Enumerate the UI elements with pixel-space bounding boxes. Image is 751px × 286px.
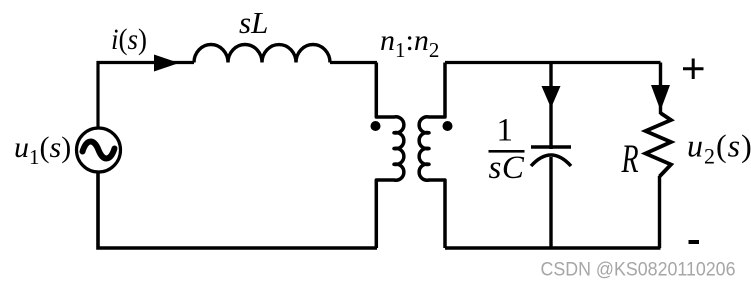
wire: source bottom lead and primary bottom rail <box>98 172 377 248</box>
capacitor C <box>531 147 571 166</box>
svg-text:sL: sL <box>239 5 268 40</box>
transformer T1 primary winding <box>376 63 404 249</box>
inductor sL <box>194 45 330 63</box>
voltage source u1(s) <box>77 128 121 172</box>
svg-text:u1(s): u1(s) <box>14 131 71 169</box>
svg-text:sC: sC <box>489 150 525 186</box>
wire: secondary bottom rail <box>445 246 661 250</box>
wire: source top lead and top-left corner to inductor <box>98 63 194 129</box>
transformer T1 secondary polarity dot <box>443 121 453 131</box>
wire: capacitor branch bottom <box>549 157 552 248</box>
current arrow into resistor <box>651 85 670 111</box>
svg-text:1: 1 <box>497 113 514 149</box>
wire: capacitor branch top <box>549 63 552 150</box>
wire: resistor branch top <box>659 63 662 115</box>
svg-text:i(s): i(s) <box>111 24 147 57</box>
resistor R <box>646 113 672 177</box>
svg-text:R: R <box>621 137 639 181</box>
current arrow i(s) <box>154 55 179 72</box>
label 1/sC <box>489 113 525 186</box>
wire: resistor branch bottom <box>658 176 661 248</box>
minus sign <box>689 240 700 244</box>
svg-text:n1:n2: n1:n2 <box>380 24 439 62</box>
transformer T1 primary polarity dot <box>371 121 381 131</box>
plus sign <box>683 59 704 80</box>
current arrow into capacitor <box>542 86 561 108</box>
wire: inductor to transformer primary <box>330 61 377 64</box>
svg-text:CSDN @KS0820110206: CSDN @KS0820110206 <box>541 260 736 281</box>
transformer T1 secondary winding <box>419 63 445 249</box>
wire: secondary top rail <box>445 61 661 64</box>
svg-text:u2(s): u2(s) <box>687 128 751 169</box>
